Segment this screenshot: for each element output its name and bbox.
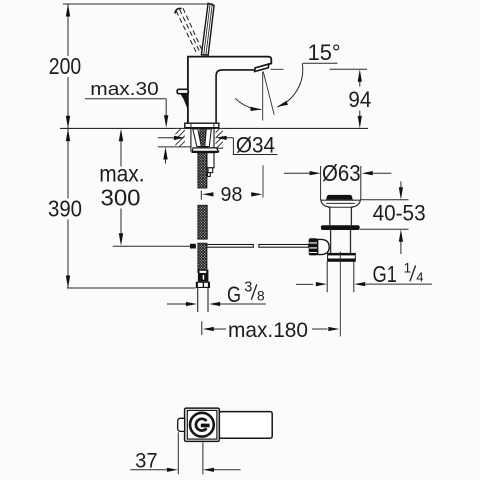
dimension G1 1/4 — [296, 261, 432, 293]
dimension 98 — [201, 184, 262, 206]
threaded shank with braid texture — [191, 129, 214, 152]
flexible hose middle segment — [198, 205, 207, 239]
plan view: handle square inner — [187, 410, 217, 439]
stream line lower segment (98 extension) — [262, 165, 264, 197]
top reference line — [63, 3, 213, 5]
svg-text:Ø63: Ø63 — [322, 160, 361, 186]
deck cross-section hatch right — [214, 129, 223, 148]
dimension max.300 vertical — [99, 129, 144, 246]
15 deg angle arc (small, left) — [235, 98, 261, 111]
15 deg angle arc (large) — [277, 63, 303, 107]
drain coupling nut — [328, 253, 356, 261]
dimension text 390 — [46, 196, 85, 222]
pop-up rod reference line (max.300 end) — [113, 245, 190, 247]
faucet handle lever phantom position (dashed) — [175, 8, 202, 52]
dimension 37 — [130, 432, 240, 474]
drain flange base line — [321, 200, 361, 203]
svg-text:max.180: max.180 — [228, 319, 308, 342]
svg-text:390: 390 — [48, 196, 82, 222]
svg-text:Ø34: Ø34 — [236, 133, 275, 158]
svg-text:4: 4 — [416, 269, 423, 284]
plan view: side tab — [178, 418, 185, 431]
plan view: cartridge outer circle — [190, 413, 214, 437]
dimension 390 vertical line — [66, 128, 70, 288]
spout aerator (angled tip) — [255, 64, 269, 71]
aerator level short line — [271, 68, 284, 70]
water stream plumb line — [262, 72, 264, 121]
svg-text:3: 3 — [244, 279, 252, 295]
dimension text 200 — [47, 53, 84, 79]
supply pipe — [198, 288, 208, 312]
svg-text:1: 1 — [404, 261, 412, 276]
svg-text:98: 98 — [221, 184, 243, 206]
pop-up rod horizontal (left piece) — [207, 245, 253, 248]
mounting nut below deck — [192, 148, 219, 152]
drain centerline — [339, 252, 341, 337]
deck cross-section hatch left — [158, 129, 191, 147]
flexible hose lower segment — [198, 243, 207, 272]
threaded stud below nut — [207, 153, 214, 177]
svg-text:200: 200 — [49, 53, 81, 79]
faucet handle lever (solid) — [201, 3, 214, 55]
hose nut — [196, 282, 210, 288]
svg-text:max.: max. — [99, 161, 144, 187]
svg-text:8: 8 — [257, 289, 265, 304]
drain head taper — [321, 200, 361, 207]
label max.30 with leader — [85, 78, 168, 163]
label Ø34 — [158, 133, 277, 158]
water stream tilted 15 deg line — [263, 72, 274, 115]
pop-up pull rod knob on body — [177, 89, 188, 110]
pop-up rod clevis — [190, 244, 196, 249]
flexible hose upper segment — [198, 153, 207, 188]
drain neck — [330, 207, 352, 225]
dimension max.180 — [202, 319, 339, 342]
svg-text:G: G — [227, 282, 241, 307]
pop-up rod knob — [309, 238, 318, 255]
svg-text:G1: G1 — [373, 261, 397, 287]
faucet base flange — [185, 123, 219, 128]
faucet body and spout outline — [188, 57, 271, 124]
label G 3/8 — [227, 279, 265, 307]
dimension 40-53 — [360, 182, 426, 255]
svg-text:max.30: max.30 — [90, 78, 159, 99]
svg-text:300: 300 — [101, 184, 141, 210]
plan view: spout rectangle — [219, 412, 272, 439]
drain pop-up waste: Ø63 dimension — [284, 160, 391, 200]
dimension G3/8 arrows — [167, 302, 266, 306]
drain gasket — [321, 225, 360, 230]
dimension 94 — [330, 69, 372, 128]
390 bottom reference line (supply pipe end) — [67, 287, 196, 289]
svg-text:15°: 15° — [308, 40, 341, 65]
svg-text:37: 37 — [135, 450, 158, 473]
drain body — [331, 230, 351, 254]
pop-up rod horizontal (right piece) — [259, 245, 309, 248]
drain flange dome — [326, 195, 353, 200]
rod guide box — [318, 239, 330, 254]
svg-text:94: 94 — [348, 87, 371, 112]
mounting deck line — [60, 127, 368, 129]
svg-text:40-53: 40-53 — [373, 201, 426, 226]
label 15 deg — [303, 40, 341, 65]
dimension 200 vertical line — [66, 4, 70, 128]
plan view: handle square outer — [185, 408, 220, 441]
hose connector G3/8 — [198, 270, 209, 282]
plan view: cartridge ring with slot — [196, 419, 210, 431]
